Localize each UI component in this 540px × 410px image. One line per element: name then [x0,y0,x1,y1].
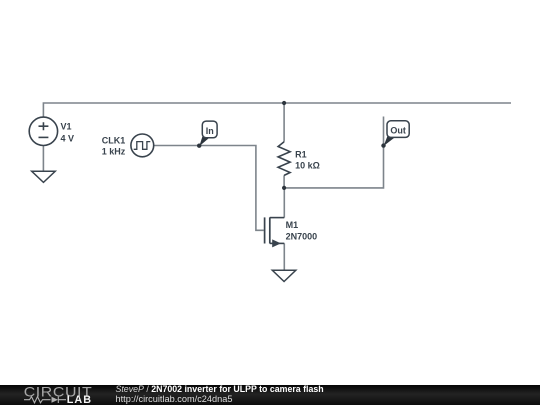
wire source to ground [283,243,285,270]
svg-text:In: In [206,126,214,136]
svg-text:M1: M1 [286,220,299,230]
svg-text:4 V: 4 V [61,133,75,143]
transistor M1 (NMOS) [265,217,285,243]
svg-text:V1: V1 [61,121,72,131]
svg-text:LAB: LAB [67,394,92,405]
junction dot In [197,144,201,148]
wire CLK1 output to gate of M1 [154,146,264,231]
wire drain node to Out flag stub [284,117,383,188]
wire R1 top lead [283,103,285,142]
voltage source V1 [29,117,57,145]
svg-text:SteveP / 2N7002 inverter for U: SteveP / 2N7002 inverter for ULPP to cam… [116,384,324,394]
wire R1 bottom lead to drain node [283,175,285,188]
wire V1 bottom to ground [42,146,44,172]
net flag Out [384,121,410,146]
net flag In [199,121,217,146]
svg-text:Out: Out [390,125,406,135]
svg-text:R1: R1 [295,149,307,159]
junction node at drain [282,186,286,190]
svg-text:10 kΩ: 10 kΩ [295,160,320,170]
footer bar [0,385,540,405]
resistor R1 [278,142,290,176]
CircuitLab logo waveform [24,397,51,403]
clock source CLK1 [131,134,154,157]
junction node at top rail [282,101,286,105]
wire drain vertical [283,188,285,218]
svg-text:1 kHz: 1 kHz [102,147,126,157]
svg-text:CLK1: CLK1 [102,136,126,146]
ground below V1 [32,171,56,182]
wire top rail from V1 to right edge [43,103,511,117]
svg-text:2N7000: 2N7000 [286,231,318,241]
M1 source arrow [272,239,281,247]
svg-text:http://circuitlab.com/c24dna5: http://circuitlab.com/c24dna5 [116,394,233,404]
CircuitLab logo diode [52,397,59,403]
ground below M1 [272,270,296,281]
junction dot Out [381,143,385,147]
